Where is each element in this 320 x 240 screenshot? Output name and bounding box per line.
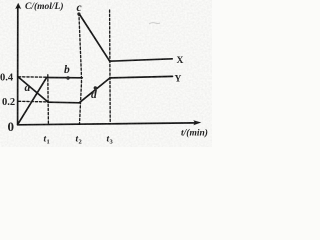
svg-text:2: 2 [79,139,82,146]
svg-text:Y: Y [175,74,182,84]
x-axis [18,123,196,125]
dashed vertical at t3 [109,10,112,122]
curve X flat segment at 0.4 [46,77,82,79]
dashed guide at 0.2 level [19,100,48,103]
curve Y rising segment after t2 [79,78,110,103]
svg-text:a: a [25,82,31,94]
svg-text:X: X [177,56,184,66]
curve X initial rising segment [18,78,47,125]
faint scan smudge [149,23,160,24]
dashed guide at 0.4 level [19,76,47,78]
point d [94,86,97,89]
svg-text:t/(min): t/(min) [181,128,208,139]
svg-text:0.2: 0.2 [2,97,15,108]
curve Y final flat segment [110,76,173,78]
svg-text:0.4: 0.4 [0,72,14,83]
svg-text:d: d [91,89,97,101]
curve Y flat segment at 0.2 [48,101,79,104]
dashed vertical at t2 [79,14,82,125]
svg-text:c: c [77,2,82,14]
y-axis arrowhead [15,3,21,9]
x-axis arrowhead [193,120,201,125]
scan grain overlay [0,0,212,147]
point b [66,76,69,79]
curve Y initial falling segment [18,77,48,102]
dashed vertical at t1 [47,75,50,124]
svg-text:b: b [64,64,70,76]
svg-text:C/(mol/L): C/(mol/L) [25,1,64,12]
curve X falling segment from c [79,14,110,62]
curve X final flat segment [110,59,173,61]
point c [77,12,80,15]
svg-text:0: 0 [8,119,15,134]
y-axis [17,7,19,125]
svg-text:1: 1 [47,139,50,146]
